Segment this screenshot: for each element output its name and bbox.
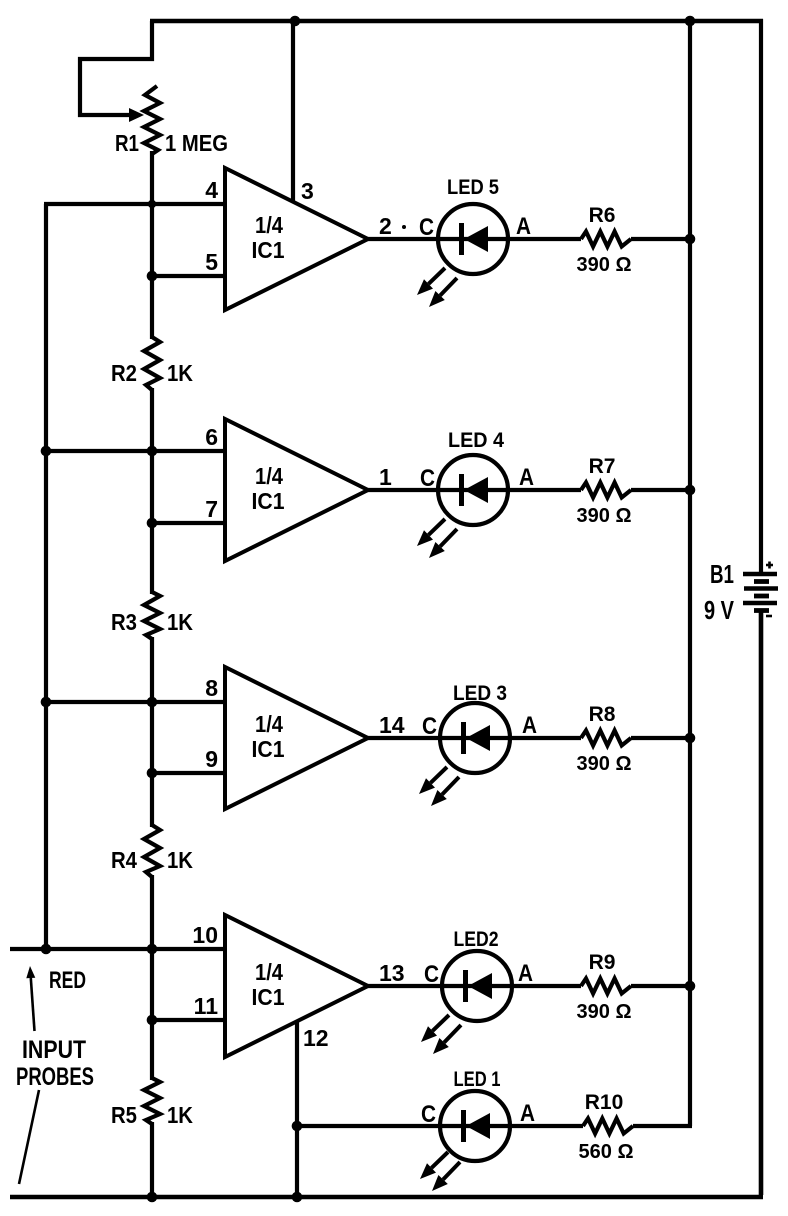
wire top positive rail [150,19,763,24]
wire pin 10 input (red probe wire) [10,947,227,951]
svg-text:9: 9 [205,746,218,772]
svg-text:R4: R4 [111,847,137,873]
svg-text:R7: R7 [589,455,616,478]
junction top rail / pin 3 branch [290,16,301,27]
svg-text:C: C [421,1101,436,1128]
svg-text:1K: 1K [167,1102,193,1128]
resistor R8 body [581,731,631,746]
wire pin 6 input [46,449,227,453]
junction divider pin 5 [147,271,158,282]
svg-text:PROBES: PROBES [16,1063,94,1091]
svg-text:1K: 1K [167,609,193,635]
svg-text:C: C [422,713,437,740]
op-amp U2 (1/4 IC1) comparator 2 [225,419,368,561]
junction bus / R8 [685,733,696,744]
wire battery negative lead to bottom rail corner [759,612,764,1195]
svg-text:1K: 1K [167,847,193,873]
svg-text:390 Ω: 390 Ω [577,1001,632,1023]
junction divider pin 10 [147,944,158,955]
LED LED 4 diode triangle [464,477,488,503]
svg-text:390 Ω: 390 Ω [577,505,632,527]
junction divider pin 6 [147,446,158,457]
junction pin 12 / bottom rail [292,1192,303,1203]
wire R8 to bus [631,736,692,740]
svg-text:B1: B1 [710,559,734,589]
LED LED 3 cathode bar [461,722,466,754]
LED LED 5 cathode bar [459,223,464,255]
svg-text:2: 2 [379,213,392,239]
svg-text:1/4: 1/4 [255,212,283,238]
junction pin 12 / LED1 wire [292,1121,303,1132]
wire op-amp output to LED 2 [366,984,581,988]
svg-text:INPUT: INPUT [22,1036,86,1064]
junction bus / R9 [685,981,696,992]
wire R3 to R4 [150,637,154,827]
op-amp U3 (1/4 IC1) comparator 3 [225,667,368,809]
wire R5 to bottom rail [150,1122,154,1197]
battery B1 plate short 1 [754,579,769,584]
battery B1 plate long 2 [744,586,778,590]
resistor R6 body [581,232,631,247]
resistor R7 body [581,483,631,498]
resistor R2 body [144,337,160,390]
svg-text:IC1: IC1 [252,237,285,263]
resistor R10 body [583,1119,633,1134]
wire pin 12 to bottom rail [295,1020,299,1197]
LED LED2 circle [442,951,512,1021]
wire divider chain segment pin4 to R2 [150,204,154,339]
svg-text:6: 6 [205,424,218,450]
battery B1 plate short 2 [754,594,769,599]
svg-text:C: C [419,214,434,241]
junction divider pin 7 [147,518,158,529]
svg-text:R9: R9 [589,951,616,974]
svg-text:4: 4 [205,177,218,203]
svg-text:LED 5: LED 5 [447,176,499,199]
battery minus sign [766,615,772,618]
svg-text:1/4: 1/4 [255,711,283,737]
svg-text:R1: R1 [115,130,139,156]
wire R1 bottom to pin-4 node [150,151,154,206]
wire left input rail [44,204,48,949]
svg-text:C: C [420,465,435,492]
LED LED 4 circle [438,455,508,525]
svg-text:13: 13 [379,960,405,986]
svg-text:IC1: IC1 [252,488,285,514]
LED LED 5 light arrows [417,268,457,307]
wire R2 to R3 [150,388,154,594]
svg-text:1: 1 [379,464,392,490]
wire pin 3 to top rail [291,21,295,202]
svg-text:R3: R3 [111,609,137,635]
svg-text:10: 10 [192,922,218,948]
LED LED 4 cathode bar [459,474,464,506]
wire op-amp output to LED 4 [366,488,581,492]
wire R7 to bus [631,488,692,492]
wire op-amp output to LED 3 [366,736,581,740]
battery B1 plate long 3 [743,601,777,605]
wiper arrowhead of R1 [129,108,144,122]
svg-text:560 Ω: 560 Ω [579,1141,634,1163]
wire battery positive lead [759,19,763,572]
junction top rail / LED bus [685,16,696,27]
svg-text:R5: R5 [111,1102,137,1128]
svg-text:1 MEG: 1 MEG [165,130,228,156]
svg-text:11: 11 [194,993,219,1019]
LED LED 3 diode triangle [466,725,490,751]
svg-text:RED: RED [49,967,86,994]
node dot artifact near pin 2 [402,225,406,229]
LED LED 1 circle [440,1091,510,1161]
wire bottom rail (black probe) [10,1195,763,1200]
LED LED2 cathode bar [463,970,468,1002]
junction left rail pin 6 [41,446,52,457]
LED LED 1 light arrows [420,1152,460,1191]
svg-text:A: A [518,960,533,987]
wire pin 4 input [44,202,227,206]
red probe pointer arrow [31,978,35,1031]
svg-text:9 V: 9 V [704,595,735,625]
wire pin 11 input [152,1018,227,1022]
svg-text:1/4: 1/4 [255,959,283,985]
op-amp U1 (1/4 IC1) comparator 1 [225,168,368,310]
svg-text:A: A [516,213,531,240]
wire op-amp output to LED 5 [366,237,581,241]
LED LED 3 circle [440,703,510,773]
svg-text:7: 7 [205,496,218,522]
LED LED 5 circle [438,204,508,274]
svg-text:LED2: LED2 [454,928,499,951]
svg-text:1K: 1K [167,360,193,386]
battery B1 plate short 3 [754,608,769,613]
junction bus / R7 [685,485,696,496]
resistor R9 body [581,979,631,994]
svg-text:IC1: IC1 [252,736,285,762]
svg-text:IC1: IC1 [252,984,285,1010]
svg-text:R2: R2 [111,360,137,386]
svg-text:390 Ω: 390 Ω [577,753,632,775]
svg-text:12: 12 [303,1025,329,1051]
svg-text:LED 3: LED 3 [453,682,507,705]
svg-text:14: 14 [379,712,405,738]
LED LED2 diode triangle [468,973,492,999]
resistor R4 body [144,825,160,877]
junction divider pin 8 [147,697,158,708]
resistor R3 body [144,592,160,639]
svg-text:8: 8 [205,675,218,701]
LED LED 3 light arrows [419,767,459,806]
svg-text:LED 4: LED 4 [448,429,504,452]
wire pin 8 input [46,700,227,704]
wire R6 to bus [631,237,692,241]
junction R1 / pin 4 node [148,200,156,208]
svg-text:R10: R10 [585,1091,624,1114]
LED LED2 light arrows [421,1015,461,1054]
wire LED bus (anode bus) [688,21,692,1126]
resistor R5 body [144,1078,160,1124]
op-amp U4 (1/4 IC1) comparator 4 [225,915,368,1057]
svg-text:390 Ω: 390 Ω [577,254,632,276]
svg-text:LED 1: LED 1 [454,1068,501,1091]
wire pin-12 node to LED 1 [297,1124,583,1128]
svg-text:R6: R6 [589,204,616,227]
LED LED 1 diode triangle [466,1113,490,1139]
svg-text:1/4: 1/4 [255,463,283,489]
LED LED 4 light arrows [417,519,457,558]
junction left rail pin 8 [41,697,52,708]
wire R9 to bus [631,984,692,988]
resistor R1 (1 MEG potentiometer) body [144,86,160,154]
junction bus / R6 [685,234,696,245]
svg-text:5: 5 [205,249,218,275]
junction divider pin 9 [147,768,158,779]
wire pin 7 input [152,521,227,525]
svg-text:R8: R8 [589,703,616,726]
battery plus sign [766,562,773,569]
wire R10 to bus [633,1124,692,1128]
svg-text:3: 3 [301,178,314,204]
svg-text:A: A [522,712,537,739]
wire pin 9 input [152,771,227,775]
wire pin 5 input [152,274,227,278]
input probes pointer line [19,1090,39,1184]
svg-text:A: A [520,1100,535,1127]
svg-text:C: C [424,961,439,988]
junction left rail pin 10 [41,944,52,955]
LED LED 1 cathode bar [461,1110,466,1142]
wire R1 wiper loop from top rail [80,21,152,115]
wire R4 to R5 [150,875,154,1080]
battery B1 plate long 1 (+) [743,572,777,576]
LED LED 5 diode triangle [464,226,488,252]
junction R5 / bottom rail [147,1192,158,1203]
junction divider pin 11 [147,1015,158,1026]
svg-text:A: A [519,464,534,491]
